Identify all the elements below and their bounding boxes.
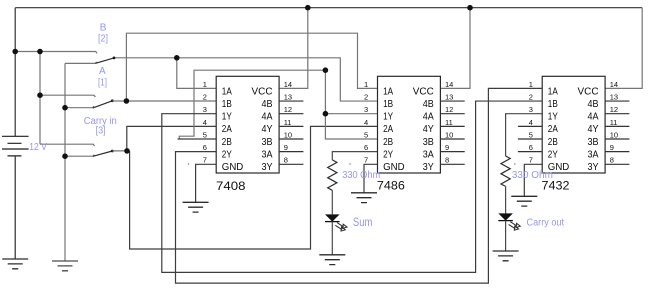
IC 7408 pin numbers [203, 80, 292, 165]
node net XOR-out upper branch [323, 67, 329, 73]
resistor R2 330 Ohm (Carry-out branch) [501, 156, 510, 186]
svg-text:1A: 1A [383, 85, 393, 97]
svg-text:2A: 2A [222, 123, 232, 135]
svg-text:GND: GND [222, 161, 244, 173]
ground of battery [2, 259, 28, 269]
switch J1 key=A blade pivot [111, 99, 114, 102]
svg-text:4: 4 [529, 118, 533, 127]
svg-text:4A: 4A [262, 111, 273, 123]
wire switch B high feed [15, 52, 97, 54]
svg-text:2A: 2A [548, 123, 558, 135]
node +V rail to 7408 VCC [305, 5, 311, 11]
svg-text:8: 8 [610, 156, 614, 165]
svg-text:2Y: 2Y [548, 149, 558, 161]
svg-text:12: 12 [610, 105, 618, 114]
svg-text:1Y: 1Y [222, 111, 232, 123]
svg-text:8: 8 [445, 156, 449, 165]
svg-text:11: 11 [284, 118, 292, 127]
svg-text:330 Ohm: 330 Ohm [512, 170, 553, 181]
svg-text:1: 1 [529, 80, 533, 89]
svg-text:5: 5 [364, 130, 368, 139]
svg-text:330 Ohm: 330 Ohm [342, 170, 380, 181]
svg-text:4B: 4B [262, 98, 273, 110]
svg-text:5: 5 [203, 130, 207, 139]
speck near 7408 pin7 [188, 163, 190, 165]
svg-text:9: 9 [284, 143, 288, 152]
speck near 7486 pin7 [349, 163, 351, 165]
svg-text:3Y: 3Y [588, 161, 599, 173]
switch J2 key=B blade pivot [113, 57, 116, 60]
svg-text:7: 7 [364, 156, 368, 165]
wire ground rail of switches [64, 63, 66, 261]
svg-text:10: 10 [445, 130, 453, 139]
svg-text:1B: 1B [548, 98, 558, 110]
ground of 7486 [351, 193, 377, 203]
svg-text:2: 2 [529, 93, 533, 102]
svg-text:6: 6 [203, 143, 207, 152]
svg-text:6: 6 [529, 143, 533, 152]
wire net AND1-out 7408 pin3 to 7432 pin2 [162, 101, 542, 272]
wire LED2 to ground [505, 221, 507, 251]
svg-text:10: 10 [284, 130, 292, 139]
wire LED1 to ground [331, 222, 333, 255]
svg-text:8: 8 [284, 156, 288, 165]
svg-text:1A: 1A [222, 85, 232, 97]
wire switch Carry-in high feed [40, 144, 95, 146]
svg-text:13: 13 [284, 93, 292, 102]
wire switch J3 pivot to junction [112, 150, 129, 152]
node net A branch [124, 98, 130, 104]
wire net Carry-in to 7486 pin4 [130, 126, 378, 249]
wire net XOR-out down to 7486 pin5 [325, 70, 377, 139]
svg-text:7486: 7486 [377, 179, 405, 193]
resistor R1 330 Ohm (Sum branch) [328, 160, 337, 190]
svg-text:12: 12 [445, 105, 453, 114]
ground of 7408 [183, 202, 209, 212]
LED LED2 Carry-out indicator [498, 213, 520, 230]
svg-text:2: 2 [203, 93, 207, 102]
wire switch Carry-in low contact [65, 155, 94, 157]
svg-text:3: 3 [364, 105, 368, 114]
svg-text:11: 11 [610, 118, 618, 127]
svg-text:1: 1 [364, 80, 368, 89]
svg-text:9: 9 [610, 143, 614, 152]
svg-text:12 V: 12 V [29, 142, 47, 153]
wire switch B low contact [65, 62, 97, 64]
svg-text:3Y: 3Y [262, 161, 273, 173]
ground of switch low rail [52, 261, 78, 271]
wire 7432 VCC pin14 [605, 8, 642, 89]
IC 7486 pin numbers [364, 80, 453, 165]
IC 7486 body [378, 76, 441, 173]
svg-text:4Y: 4Y [423, 123, 434, 135]
svg-text:1Y: 1Y [383, 111, 393, 123]
wire net AND2-out 7408 pin6 to 7432 pin1 [176, 88, 543, 283]
svg-text:14: 14 [610, 80, 618, 89]
svg-text:VCC: VCC [252, 85, 273, 97]
svg-text:6: 6 [364, 143, 368, 152]
battery V1 12V plates [2, 136, 29, 156]
switch J2 key=B blade [96, 58, 115, 63]
svg-text:7: 7 [203, 156, 207, 165]
wire switch A high feed [40, 95, 95, 97]
node net B branch [174, 55, 180, 61]
ground of Carry-out branch [493, 251, 519, 261]
IC 7408 unconnected right pin stubs (pins 13-8) [279, 101, 303, 164]
wire battery positive rail [14, 8, 16, 137]
svg-text:3: 3 [529, 105, 533, 114]
svg-text:9: 9 [445, 143, 449, 152]
svg-text:4: 4 [203, 118, 207, 127]
wire net Carry-in to 7408 pin4 [127, 126, 216, 151]
IC 7432 unconnected left pin stubs (pins 4-6) [518, 126, 542, 151]
svg-text:1B: 1B [383, 98, 393, 110]
wire battery negative lead [14, 156, 16, 259]
speck near 7432 pin7 [514, 163, 516, 165]
svg-text:4A: 4A [588, 111, 599, 123]
switch J3 key=Carry-in blade pivot [111, 150, 114, 153]
wire 7486 VCC pin14 [440, 8, 470, 89]
node +V rail to 7486 VCC [467, 5, 473, 11]
svg-text:13: 13 [610, 93, 618, 102]
svg-text:3B: 3B [588, 136, 599, 148]
svg-text:10: 10 [610, 130, 618, 139]
svg-text:2A: 2A [383, 123, 393, 135]
node ground rail at A low contact [62, 105, 68, 111]
switch J3 key=Carry-in blade [93, 151, 112, 156]
svg-text:2B: 2B [222, 136, 232, 148]
svg-text:3: 3 [203, 105, 207, 114]
svg-text:1A: 1A [548, 85, 558, 97]
svg-text:[1]: [1] [98, 78, 107, 89]
svg-text:GND: GND [383, 161, 405, 173]
svg-text:14: 14 [445, 80, 453, 89]
svg-text:2B: 2B [383, 136, 393, 148]
svg-text:7408: 7408 [216, 179, 246, 193]
switch J1 key=A blade [93, 101, 112, 108]
svg-text:2Y: 2Y [222, 149, 232, 161]
svg-text:4B: 4B [423, 98, 434, 110]
svg-text:1: 1 [203, 80, 207, 89]
svg-text:4A: 4A [423, 111, 434, 123]
svg-text:2B: 2B [548, 136, 558, 148]
svg-text:3A: 3A [423, 149, 434, 161]
svg-text:VCC: VCC [578, 85, 599, 97]
wire net Sum 7486 pin6 to R1 [332, 152, 377, 160]
svg-text:A: A [99, 66, 106, 77]
wire 7408 pin5 entry [178, 138, 217, 140]
node supply branch top [37, 49, 43, 55]
wire net A branch to 7408 pin2 [126, 100, 216, 102]
svg-text:1Y: 1Y [548, 111, 558, 123]
wire net B branch to 7408 pin1 [177, 58, 216, 89]
svg-text:B: B [100, 23, 107, 34]
wire net A to 7486 pin1 [126, 33, 377, 101]
node supply to switch A feed [37, 92, 43, 98]
wire +V top rail [15, 7, 642, 9]
svg-text:1B: 1B [222, 98, 232, 110]
wire 7408 VCC pin14 [279, 8, 308, 89]
wire R1 to LED1 [331, 190, 333, 214]
IC 7432 pin labels [548, 85, 599, 173]
svg-text:12: 12 [284, 105, 292, 114]
svg-text:2Y: 2Y [383, 149, 393, 161]
svg-text:VCC: VCC [413, 85, 434, 97]
svg-text:4Y: 4Y [262, 123, 273, 135]
svg-text:5: 5 [529, 130, 533, 139]
svg-text:3B: 3B [423, 136, 434, 148]
svg-text:Carry out: Carry out [527, 217, 565, 228]
ground of Sum branch [319, 255, 345, 265]
wire net B to 7486 pin2 [114, 58, 378, 101]
svg-text:4Y: 4Y [588, 123, 599, 135]
wire 7408 GND pin7 [196, 164, 217, 202]
wire switch A low contact [65, 106, 94, 108]
IC 7432 body [542, 76, 605, 173]
svg-text:14: 14 [284, 80, 292, 89]
svg-text:Sum: Sum [353, 215, 373, 229]
wire supply branch to A and Carry-in [39, 52, 41, 145]
svg-text:3Y: 3Y [423, 161, 434, 173]
svg-text:[3]: [3] [96, 126, 106, 137]
IC 7408 body [216, 76, 279, 173]
wire switch J1 pivot to junction [112, 100, 126, 102]
svg-text:7: 7 [529, 156, 533, 165]
svg-text:4: 4 [364, 118, 368, 127]
wire 7486 GND pin7 [364, 164, 378, 193]
wire 7432 GND pin7 [524, 164, 542, 196]
IC 7432 unconnected right pin stubs (pins 13-8) [605, 101, 629, 164]
svg-text:3A: 3A [262, 149, 273, 161]
IC 7486 unconnected right pin stubs (pins 13-8) [440, 101, 464, 164]
node net XOR-out at pin3 [323, 111, 329, 117]
svg-text:2: 2 [364, 93, 368, 102]
wire net XOR-out over to 7408 pin5 [179, 70, 325, 139]
node net Carry-in branch [124, 148, 130, 154]
IC 7486 pin labels [383, 85, 434, 173]
IC 7408 pin labels [222, 85, 273, 173]
wire net Carry-out 7432 pin3 to R2 [506, 114, 543, 156]
LED LED1 Sum indicator [325, 214, 347, 231]
svg-text:3A: 3A [588, 149, 599, 161]
node battery to switch B feed [12, 49, 18, 55]
svg-text:4B: 4B [588, 98, 599, 110]
wire net XOR-out 7486 pin3 junction [325, 113, 377, 115]
IC 7432 pin numbers [529, 80, 618, 165]
svg-text:11: 11 [445, 118, 453, 127]
ground of 7432 [511, 196, 537, 206]
wire R2 to LED2 [505, 186, 507, 213]
svg-text:[2]: [2] [98, 33, 108, 44]
svg-text:3B: 3B [262, 136, 273, 148]
svg-text:13: 13 [445, 93, 453, 102]
node ground rail at Carry low contact [62, 153, 68, 159]
